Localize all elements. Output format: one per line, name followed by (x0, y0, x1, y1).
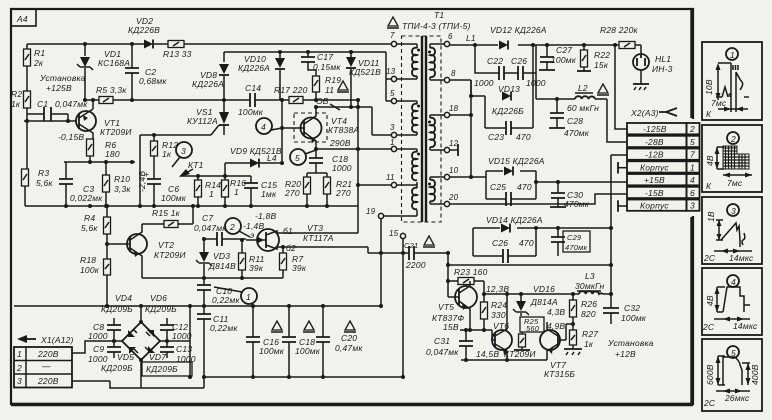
svg-text:470: 470 (516, 132, 531, 142)
wire bus y=52 snubber (224, 51, 386, 53)
svg-text:1В: 1В (706, 211, 716, 222)
wire bottom bus primary y=206 (25, 205, 358, 207)
svg-text:C1: C1 (37, 99, 48, 109)
svg-text:R3: R3 (38, 168, 49, 178)
svg-text:КД226Б: КД226Б (492, 106, 524, 116)
svg-text:220В: 220В (37, 376, 59, 386)
connector X2(A3) (630, 108, 677, 118)
rectifier cell VD14 C26 (473, 215, 611, 263)
pin 6 (430, 32, 453, 48)
svg-text:3,3к: 3,3к (114, 184, 131, 194)
resistor R11 (239, 238, 265, 278)
svg-text:VT3: VT3 (307, 223, 323, 233)
capacitor C29 boxed label (551, 226, 590, 256)
capacitor C31 (426, 330, 473, 360)
svg-text:R13 33: R13 33 (163, 49, 192, 59)
wire -12V feed vertical x=611 (611, 155, 627, 294)
wire pin11 stub (358, 184, 391, 186)
svg-text:ТПИ-4-3 (ТПИ-5): ТПИ-4-3 (ТПИ-5) (402, 21, 471, 31)
wire VT4 base vertical x=282 (281, 100, 283, 163)
svg-text:HL1: HL1 (655, 54, 671, 64)
svg-text:1: 1 (390, 138, 395, 147)
T1 secondary winding 18-12 (430, 118, 435, 147)
svg-text:C22: C22 (487, 56, 503, 66)
svg-text:-15В: -15В (645, 188, 664, 198)
transistor VT3 unijunction (246, 223, 334, 253)
capacitor C32 (603, 294, 647, 324)
svg-text:VD3: VD3 (213, 251, 230, 261)
svg-text:VD7: VD7 (149, 352, 166, 362)
svg-text:1к: 1к (11, 99, 21, 109)
svg-text:470: 470 (517, 182, 532, 192)
svg-text:VD13: VD13 (498, 84, 520, 94)
svg-text:560: 560 (526, 324, 540, 333)
svg-text:0,022мк: 0,022мк (70, 193, 103, 203)
svg-text:VD5: VD5 (117, 352, 134, 362)
resistor R1 (24, 44, 46, 91)
svg-text:КТ1: КТ1 (188, 160, 204, 170)
zener VD3 (196, 237, 236, 278)
svg-text:КД209Б: КД209Б (101, 363, 133, 373)
svg-text:КТ315Б: КТ315Б (544, 369, 575, 379)
svg-text:39к: 39к (292, 263, 307, 273)
svg-text:R24: R24 (491, 300, 507, 310)
pin 5 (390, 89, 417, 104)
capacitor C3 (59, 162, 103, 206)
svg-text:1: 1 (209, 189, 214, 199)
node 2 circled (225, 218, 264, 237)
svg-text:270: 270 (284, 188, 300, 198)
svg-text:Установка: Установка (607, 338, 654, 348)
svg-text:R18: R18 (80, 255, 96, 265)
pin 20 (430, 193, 459, 207)
pin 15 terminal (389, 229, 406, 253)
capacitor C2 (125, 44, 167, 100)
svg-text:+12В: +12В (615, 349, 636, 359)
wire stabilizer bottom bus y=360 (461, 359, 547, 361)
wire lower return y=388 (110, 381, 204, 388)
resistor R25 boxed label (514, 317, 544, 350)
rectifier cell VD13 C23 (450, 80, 533, 142)
A4 title box (11, 9, 36, 26)
svg-text:Д814В: Д814В (208, 261, 236, 271)
pin 19 (366, 207, 417, 219)
svg-text:X1(А12): X1(А12) (40, 335, 74, 345)
ground bar row Корпус 3 (618, 200, 627, 212)
wire b1 vertical x=358 (357, 100, 359, 233)
capacitor C18 emitter (309, 149, 352, 173)
svg-text:—: — (41, 361, 51, 371)
svg-text:1: 1 (690, 163, 695, 173)
svg-text:1000: 1000 (332, 163, 352, 173)
panel 4 (702, 268, 762, 335)
svg-text:2200: 2200 (405, 260, 426, 270)
svg-text:L1: L1 (466, 33, 476, 43)
svg-text:100мк: 100мк (295, 346, 321, 356)
svg-text:14мкс: 14мкс (729, 253, 754, 263)
svg-text:ИН-3: ИН-3 (652, 64, 673, 74)
svg-text:1000: 1000 (172, 331, 192, 341)
svg-text:C20: C20 (341, 333, 357, 343)
svg-text:15В: 15В (443, 322, 459, 332)
wire 15В node y=330 (460, 329, 492, 331)
wire secondary top bus y=45 (450, 44, 641, 46)
svg-text:3: 3 (17, 376, 22, 386)
svg-text:C21: C21 (404, 241, 418, 250)
svg-text:3: 3 (390, 123, 395, 132)
panel 5 (702, 339, 762, 411)
svg-text:КТ117А: КТ117А (303, 233, 334, 243)
labels VD5 VD7 (101, 352, 192, 376)
T1 primary winding 7-13 (412, 48, 417, 77)
svg-text:1: 1 (17, 349, 22, 359)
capacitor C20 with triangle (316, 306, 363, 377)
svg-text:VD14 КД226А: VD14 КД226А (486, 215, 543, 225)
T1 winding 5-3 (412, 104, 417, 133)
wire R14/R16 top y=176 (180, 175, 251, 177)
svg-text:КД521В: КД521В (349, 67, 381, 77)
T1 secondary winding 6-8 (430, 48, 435, 77)
svg-text:220В: 220В (37, 349, 59, 359)
pin 7 (390, 31, 417, 48)
svg-text:100мк: 100мк (259, 346, 285, 356)
svg-text:1к: 1к (584, 339, 594, 349)
svg-text:КД209Б: КД209Б (146, 364, 178, 374)
svg-text:5: 5 (390, 89, 395, 98)
svg-text:R10: R10 (114, 174, 130, 184)
svg-text:L2: L2 (578, 83, 588, 93)
svg-text:30мкГн: 30мкГн (575, 281, 605, 291)
pin 13 (386, 67, 417, 82)
svg-text:R28 220к: R28 220к (600, 25, 639, 35)
svg-text:15: 15 (389, 229, 399, 238)
svg-text:100мк: 100мк (161, 193, 187, 203)
svg-text:0,68мк: 0,68мк (139, 76, 167, 86)
bridge rectifier VD4-VD7 (122, 306, 160, 388)
svg-text:5: 5 (690, 137, 695, 147)
node 3 circled (172, 142, 192, 167)
transistor VT6 (476, 294, 536, 360)
wire b2 y=247 (277, 247, 368, 253)
svg-text:-1,8В: -1,8В (255, 211, 276, 221)
svg-text:КД226В: КД226В (128, 25, 160, 35)
svg-text:2к: 2к (33, 58, 44, 68)
svg-text:5,6к: 5,6к (81, 223, 98, 233)
wire bus y=162 (64, 161, 135, 163)
diode VD10 (238, 52, 285, 100)
svg-text:-2,4В: -2,4В (137, 171, 147, 192)
wire pin20 to -15V row (450, 194, 627, 204)
svg-text:0,47мк: 0,47мк (335, 343, 363, 353)
neon lamp HL1 (633, 45, 673, 90)
svg-text:C27: C27 (556, 45, 572, 55)
svg-text:C26: C26 (511, 56, 527, 66)
thyristor VS1 (187, 107, 229, 135)
wire stabilizer top rail y=265 (448, 253, 611, 297)
svg-text:КД226А: КД226А (238, 63, 270, 73)
svg-text:Корпус: Корпус (640, 163, 669, 173)
resistor R16 (222, 176, 247, 206)
wire X1 row1 to bridge (72, 341, 122, 353)
svg-text:100мк: 100мк (551, 55, 577, 65)
svg-text:VD4: VD4 (115, 293, 132, 303)
svg-text:C26: C26 (492, 238, 508, 248)
svg-text:5,6к: 5,6к (36, 178, 53, 188)
svg-text:L3: L3 (585, 271, 595, 281)
wire bus y=306 (14, 305, 381, 307)
svg-text:R22: R22 (594, 50, 610, 60)
wire common vertical x=403 (402, 253, 404, 377)
panel 2 (702, 125, 762, 192)
transistor VT1 (58, 100, 132, 142)
pin 3 (390, 123, 417, 138)
svg-text:3: 3 (731, 206, 736, 216)
svg-text:7: 7 (690, 150, 695, 160)
panel 1 (702, 42, 762, 120)
capacitor C14 (238, 83, 264, 117)
resistor R17 (274, 85, 308, 104)
svg-text:R27: R27 (582, 329, 598, 339)
svg-text:-0,15В: -0,15В (58, 132, 84, 142)
wire VD13 right edge to top bus (532, 45, 534, 96)
svg-text:R5 3,3к: R5 3,3к (96, 85, 127, 95)
connector table X2 (627, 123, 700, 211)
pin 11 (386, 173, 417, 188)
rectifier cell VD15 C25 (450, 156, 545, 206)
svg-text:R26: R26 (581, 299, 597, 309)
svg-text:12: 12 (449, 139, 459, 148)
wire bus y=377 (204, 376, 403, 378)
svg-text:180: 180 (105, 149, 120, 159)
svg-text:КД226А: КД226А (192, 79, 224, 89)
svg-text:R1: R1 (34, 48, 45, 58)
svg-text:470мк: 470мк (564, 128, 590, 138)
pin 1 (390, 138, 417, 152)
svg-text:330: 330 (491, 310, 506, 320)
capacitors C22 C26 (474, 45, 546, 88)
wire emitter rail y=294 (484, 293, 579, 295)
resistor R13 (163, 41, 192, 60)
T1 winding 1-11 (412, 152, 417, 181)
svg-text:VD12 КД226А: VD12 КД226А (490, 25, 547, 35)
svg-text:VD15 КД226А: VD15 КД226А (488, 156, 545, 166)
capacitor C9 (88, 339, 121, 364)
svg-text:Корпус: Корпус (640, 201, 669, 211)
diode VD12 (490, 25, 547, 50)
svg-text:400В: 400В (750, 364, 760, 385)
svg-text:0,047мк: 0,047мк (194, 223, 227, 233)
capacitor C17 (301, 52, 341, 76)
label Установка +125В (39, 73, 86, 93)
svg-text:0,22мк: 0,22мк (212, 295, 240, 305)
svg-text:-125В: -125В (643, 124, 667, 134)
capacitor C6 (144, 169, 187, 206)
svg-text:КТ209И: КТ209И (100, 127, 132, 137)
ground bar row Корпус 1 (618, 162, 627, 174)
svg-text:0,22мк: 0,22мк (210, 323, 238, 333)
svg-text:5: 5 (295, 153, 300, 163)
wire VT1 base (24, 120, 76, 122)
svg-text:C23: C23 (488, 132, 504, 142)
diode VD11 (346, 52, 381, 107)
connector table X1 (14, 347, 72, 388)
svg-text:КТ838А: КТ838А (328, 125, 359, 135)
resistor R26 (570, 294, 598, 330)
inductor L3 (575, 271, 611, 294)
svg-text:C9: C9 (93, 344, 104, 354)
svg-text:К: К (706, 181, 712, 191)
warning triangle near R19 (337, 81, 349, 92)
svg-text:60 мкГн: 60 мкГн (567, 103, 599, 113)
svg-text:1: 1 (730, 50, 735, 60)
svg-text:18: 18 (449, 104, 459, 113)
svg-text:КС168А: КС168А (98, 58, 130, 68)
svg-text:VD16: VD16 (533, 284, 555, 294)
svg-text:К: К (706, 109, 712, 119)
svg-text:-12В: -12В (645, 150, 664, 160)
svg-text:6: 6 (448, 32, 453, 41)
resistor R14 (195, 176, 222, 206)
svg-text:4: 4 (261, 122, 266, 132)
svg-text:1мк: 1мк (261, 189, 277, 199)
capacitor C12 (160, 306, 192, 379)
svg-text:-28В: -28В (645, 137, 664, 147)
svg-text:+15В: +15В (644, 175, 665, 185)
T1 secondary winding 10-20 (430, 180, 435, 202)
svg-text:1: 1 (234, 187, 239, 197)
svg-text:A4: A4 (16, 14, 28, 24)
resistor R5 (96, 85, 127, 104)
transistor VT5 (432, 281, 477, 330)
wire pin18 stub (450, 114, 471, 116)
resistor R4 (81, 206, 111, 259)
pin 8 (430, 69, 456, 83)
svg-text:20: 20 (448, 193, 459, 202)
transformer T1 dashed box (402, 10, 471, 222)
wire R20/R21 top (307, 173, 327, 177)
svg-text:R2: R2 (11, 89, 22, 99)
zener VD16 (513, 284, 565, 331)
svg-text:4В: 4В (705, 155, 715, 166)
pin 12 with ground (430, 139, 459, 156)
winding polarity dots (417, 49, 431, 186)
svg-text:290В: 290В (329, 138, 351, 148)
svg-text:820: 820 (581, 309, 596, 319)
node 4 circled (256, 118, 282, 134)
svg-text:C28: C28 (567, 116, 583, 126)
svg-text:100к: 100к (80, 265, 100, 275)
svg-text:0,15мк: 0,15мк (313, 62, 341, 72)
capacitor C15 (244, 176, 277, 206)
svg-text:э: э (250, 230, 254, 240)
wire bus y=100 (85, 99, 359, 101)
svg-text:R4: R4 (84, 213, 95, 223)
svg-text:1к: 1к (162, 149, 172, 159)
resistor R28 (600, 25, 639, 49)
svg-text:10В: 10В (704, 79, 714, 95)
svg-text:270: 270 (335, 188, 351, 198)
capacitor C30 (550, 182, 590, 209)
svg-text:7мс: 7мс (711, 98, 727, 108)
svg-text:R19: R19 (325, 75, 341, 85)
connector X1(A12) (17, 335, 74, 345)
svg-text:100мк: 100мк (238, 107, 264, 117)
svg-text:1000: 1000 (474, 78, 494, 88)
svg-text:19: 19 (366, 207, 376, 216)
svg-text:VT6: VT6 (493, 321, 509, 331)
resistor R12 (151, 135, 179, 179)
svg-text:2: 2 (730, 134, 736, 144)
svg-text:б1: б1 (283, 226, 293, 236)
svg-text:б2: б2 (286, 243, 296, 253)
svg-text:4: 4 (731, 277, 736, 287)
node КТ1 probe (179, 160, 204, 177)
resistor R2 (11, 89, 31, 121)
capacitor C7 (194, 213, 246, 246)
svg-text:Д814А: Д814А (530, 297, 558, 307)
node 5 circled (290, 149, 316, 165)
T1 winding 11-19 (412, 188, 417, 210)
svg-text:100мк: 100мк (621, 313, 647, 323)
svg-text:C13: C13 (176, 344, 192, 354)
wire pin3 stub (372, 134, 391, 136)
svg-text:600В: 600В (705, 364, 715, 385)
svg-text:R15 1к: R15 1к (152, 208, 181, 218)
svg-text:3: 3 (181, 146, 186, 156)
wire +15V rail y=184 (536, 181, 627, 183)
transformer core (422, 36, 426, 222)
svg-text:2С: 2С (703, 398, 716, 408)
svg-text:R17 220: R17 220 (274, 85, 308, 95)
panel 3 (702, 197, 762, 264)
capacitor C10 (197, 278, 240, 314)
resistor R20 (284, 177, 311, 206)
svg-text:0,047мк: 0,047мк (426, 347, 459, 357)
capacitor C28 + inductor L2 (536, 73, 607, 138)
resistor R7 (280, 245, 307, 278)
inductor L2 (575, 83, 595, 99)
wire 290В y=149 to pin1 (316, 148, 391, 150)
svg-text:1: 1 (246, 292, 251, 302)
svg-text:4: 4 (690, 175, 695, 185)
labels VD4 VD6 (101, 293, 177, 314)
transistor VT7 (540, 322, 575, 379)
wire pins8-18-10 vertical x=471 (470, 80, 472, 177)
svg-text:С31: С31 (434, 336, 450, 346)
wire X1 row3 (72, 380, 110, 382)
svg-text:1000: 1000 (88, 331, 108, 341)
zener VD1 (77, 44, 130, 100)
pin 10 (430, 166, 459, 180)
wire top bus y=44 (27, 43, 391, 45)
transistor VT4 with dashed heatsink box (282, 96, 359, 149)
resistor R21 (324, 177, 353, 206)
wire pin19 vertical x=381 (380, 219, 382, 306)
svg-text:R23 160: R23 160 (454, 267, 488, 277)
resistor R18 (80, 255, 111, 306)
svg-text:C17: C17 (317, 52, 333, 62)
diode VD2 (128, 16, 160, 49)
warning triangle near L2 (597, 84, 609, 95)
transistor VT2 (105, 224, 186, 278)
resistor R24 (481, 294, 508, 330)
svg-text:13: 13 (386, 67, 396, 76)
svg-text:ОВ: ОВ (316, 96, 329, 106)
junction dots top bus (83, 42, 134, 46)
svg-text:15к: 15к (594, 60, 609, 70)
wire collector rail y=107 (316, 107, 372, 135)
svg-text:C25: C25 (490, 182, 506, 192)
